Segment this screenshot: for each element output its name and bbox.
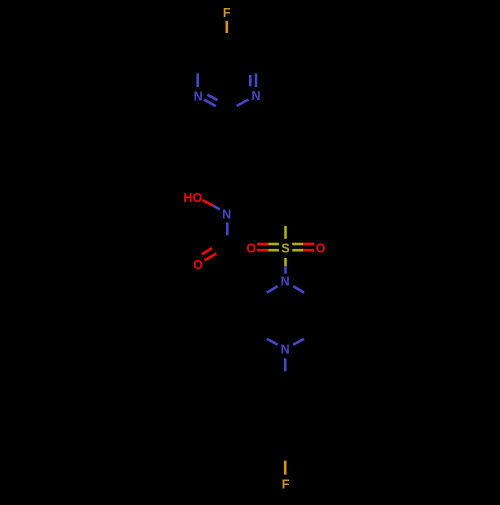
bond Npip-top to C left (N half) [267,286,278,293]
svg-text:HO: HO [183,191,202,205]
bond C-S (S half) [284,226,287,239]
bond Npip-bottom to C right (N half) [293,339,304,345]
svg-text:N: N [281,343,290,357]
bond Npip-bottom to C left (N half) [267,339,278,345]
bond N1-C2 (N half, single) [237,100,249,106]
svg-text:S: S [281,242,289,256]
bond S=O right (S half, double) [292,244,303,250]
bond N3-C4 (N half, single) [196,73,199,87]
bond C5-F (F half) [226,21,229,33]
bond Npip-bottom to phenyl ipso C (N half) [284,358,287,371]
svg-text:O: O [316,241,326,255]
bond S-N (N half) [284,266,287,274]
bond N3=C2 (N half, double) [204,95,218,107]
bond S=O left (S half, double) [268,244,279,250]
bond O-N (O half) [203,200,213,206]
svg-text:N: N [281,275,290,289]
bond S=O right (O half, double) [303,244,314,250]
svg-text:N: N [251,89,260,103]
svg-text:N: N [222,208,231,222]
bond O-N (N half) [213,206,220,210]
bond Npip-top to C right (N half) [293,286,304,293]
svg-text:N: N [194,90,203,104]
svg-text:O: O [193,258,203,272]
bond N-C(=O) (N half) [226,223,229,236]
bond S=O left (O half, double) [257,244,268,250]
bond C=O (O half, double) [202,248,217,260]
svg-text:F: F [223,6,231,20]
bond phenyl C4-F (F half) [284,461,287,475]
svg-text:O: O [246,241,256,255]
bond N1=C6 (N half, double) [250,73,256,87]
bond S-N (S half) [284,258,287,266]
svg-text:F: F [282,478,290,492]
